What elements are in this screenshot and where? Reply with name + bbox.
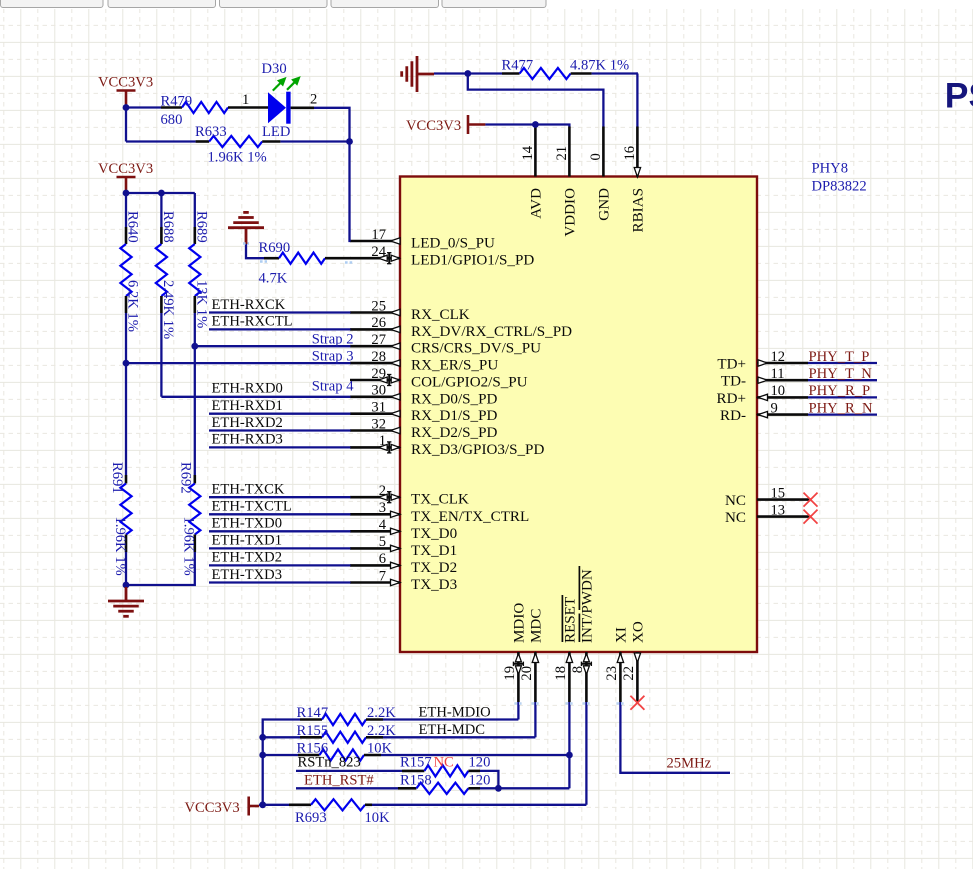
svg-text:15: 15 [771, 485, 786, 501]
wire gnd to junction [434, 72, 468, 74]
wire LED to corner [291, 107, 314, 110]
svg-text:TD+: TD+ [717, 357, 746, 373]
wire net ETH-TXD2 [209, 564, 351, 566]
svg-text:7: 7 [379, 568, 386, 584]
node junction R689 row27 [191, 343, 198, 350]
svg-text:TX_CLK: TX_CLK [411, 492, 469, 508]
pin 14 AVD [520, 127, 545, 219]
wire RESET col [568, 702, 570, 755]
svg-text:AVD: AVD [529, 188, 545, 219]
svg-text:17: 17 [371, 227, 386, 243]
wire row30 strap4 from R688 [161, 396, 350, 398]
pin 7 TX_D3 [350, 568, 457, 593]
svg-text:R158: R158 [400, 773, 432, 789]
svg-text:R157: R157 [400, 755, 432, 771]
svg-text:12: 12 [771, 349, 786, 365]
wire net ETH-RXCK [209, 311, 351, 313]
svg-text:32: 32 [371, 416, 386, 432]
svg-text:22: 22 [621, 666, 637, 681]
svg-text:LED_0/S_PU: LED_0/S_PU [411, 236, 495, 252]
power VCC3V3 (bottom-left) [247, 797, 250, 816]
svg-text:MDIO: MDIO [512, 603, 528, 643]
node junction rail R640 [123, 190, 130, 197]
resistor R692 1.96K 1% [194, 346, 196, 475]
ground power symbol (bottom of R691) [125, 587, 128, 601]
wire R477 to RBIAS pin16 [636, 74, 639, 127]
svg-text:14: 14 [520, 145, 536, 160]
svg-text:PHY_T_P: PHY_T_P [809, 349, 870, 365]
resistor R155 2.2K [263, 736, 300, 738]
wire net ETH-TXCTL [209, 513, 351, 515]
ERC markers (light blue) at bottom pin ends [514, 702, 624, 704]
svg-text:13K 1%: 13K 1% [193, 280, 209, 328]
svg-text:R640: R640 [125, 211, 141, 243]
node junction VCC-R479-R633 [123, 104, 130, 111]
resistor R690 4.7K [264, 257, 279, 260]
svg-text:PS: PS [945, 76, 973, 116]
wire VCC3V3 rail [125, 190, 127, 193]
pin 9 RD- [720, 400, 808, 424]
svg-text:ETH-TXD3: ETH-TXD3 [212, 567, 283, 583]
pin 20 MDC [519, 609, 545, 702]
svg-text:20: 20 [519, 666, 535, 681]
wire XI col to 25MHz [620, 702, 730, 773]
svg-text:VCC3V3: VCC3V3 [406, 118, 461, 134]
resistor R147 2.2K [300, 718, 322, 721]
wire VCC to R479 [126, 106, 161, 108]
svg-text:ETH-TXD1: ETH-TXD1 [212, 533, 283, 549]
svg-text:NC: NC [434, 755, 454, 771]
wire net ETH-TXD0 [209, 530, 351, 532]
node junction RESET-R156 [566, 752, 573, 759]
svg-text:5: 5 [379, 534, 386, 550]
svg-text:21: 21 [554, 146, 570, 161]
svg-text:VDDIO: VDDIO [563, 188, 579, 237]
svg-text:ETH-TXCK: ETH-TXCK [212, 482, 285, 498]
node junction R155 rail [259, 734, 266, 741]
svg-text:25: 25 [371, 298, 386, 314]
wire net ETH-TXCK [209, 496, 351, 498]
svg-text:RBIAS: RBIAS [631, 188, 647, 232]
svg-text:PHY8: PHY8 [812, 161, 849, 177]
svg-text:Strap 4: Strap 4 [312, 379, 354, 395]
svg-text:Strap 3: Strap 3 [312, 348, 354, 364]
pin 32 RX_D2/S_PD [350, 416, 497, 441]
wire net PHY_T_P [808, 362, 877, 364]
resistor R640 6.2K 1% [125, 193, 127, 227]
svg-text:VCC3V3: VCC3V3 [98, 75, 153, 91]
svg-text:TX_D2: TX_D2 [411, 560, 457, 576]
svg-text:NC: NC [725, 510, 746, 526]
pin 26 RX_DV/RX_CTRL/S_PD [350, 315, 572, 340]
svg-text:PHY_R_N: PHY_R_N [809, 400, 874, 416]
pin 10 RD+ [717, 383, 808, 407]
svg-text:XO: XO [631, 621, 647, 643]
svg-text:11: 11 [771, 366, 785, 382]
wire net ETH-RXD2 [209, 429, 351, 431]
pin 2 TX_CLK [350, 483, 469, 508]
window tab bar [1, 0, 104, 8]
svg-text:CRS/CRS_DV/S_PU: CRS/CRS_DV/S_PU [411, 341, 541, 357]
svg-text:TX_D0: TX_D0 [411, 526, 457, 542]
svg-text:RX_ER/S_PU: RX_ER/S_PU [411, 358, 498, 374]
svg-text:13: 13 [771, 502, 786, 518]
svg-text:RX_D3/GPIO3/S_PD: RX_D3/GPIO3/S_PD [411, 442, 544, 458]
pin 12 TD+ [717, 349, 808, 373]
svg-text:XI: XI [614, 627, 630, 643]
svg-text:4: 4 [379, 517, 387, 533]
wire left pullup rail [263, 720, 300, 805]
svg-text:27: 27 [371, 332, 386, 348]
svg-text:ETH-TXD0: ETH-TXD0 [212, 516, 283, 532]
svg-text:R693: R693 [295, 810, 327, 826]
pin 17 LED_0/S_PU [350, 227, 495, 252]
svg-text:ETH-MDC: ETH-MDC [419, 722, 485, 738]
svg-text:2: 2 [310, 92, 317, 108]
pin 6 TX_D2 [350, 551, 457, 576]
svg-text:D30: D30 [262, 61, 287, 77]
wire junction to GND pin0 [468, 74, 604, 127]
svg-text:0: 0 [588, 153, 604, 160]
resistor R693 10K [263, 804, 289, 806]
svg-text:R155: R155 [297, 723, 329, 739]
pin 5 TX_D1 [350, 534, 457, 559]
svg-text:TX_D1: TX_D1 [411, 543, 457, 559]
pin 11 TD- [721, 366, 808, 390]
power VCC3V3 (top middle) [467, 115, 470, 134]
svg-text:R692: R692 [177, 462, 193, 494]
resistor R688 2.49K 1% [160, 193, 162, 227]
svg-text:16: 16 [622, 146, 638, 161]
svg-text:DP83822: DP83822 [812, 179, 867, 195]
svg-text:R479: R479 [161, 94, 193, 110]
svg-text:RD-: RD- [720, 408, 746, 424]
svg-text:ETH-RXCK: ETH-RXCK [212, 297, 286, 313]
svg-text:2.2K: 2.2K [367, 723, 396, 739]
svg-text:ETH-RXD1: ETH-RXD1 [212, 398, 283, 414]
svg-text:3: 3 [379, 500, 386, 516]
svg-text:26: 26 [371, 315, 386, 331]
pin 0 GND [588, 127, 613, 221]
pin 18 RESET [553, 595, 579, 702]
svg-text:TX_D3: TX_D3 [411, 577, 457, 593]
wire net ETH-TXD3 [209, 581, 351, 583]
svg-text:19: 19 [502, 666, 518, 681]
wire VCC to junction [259, 804, 263, 806]
svg-text:Strap 2: Strap 2 [312, 332, 354, 348]
pin 3 TX_EN/TX_CTRL [350, 500, 529, 525]
wire net PHY_R_P [808, 396, 877, 398]
node junction R633-LED column [346, 138, 353, 145]
node junction R157-R158 [495, 785, 502, 792]
node junction AVD [532, 121, 539, 128]
svg-text:RX_D0/S_PD: RX_D0/S_PD [411, 391, 497, 407]
svg-text:18: 18 [553, 666, 569, 681]
no-connect X on XO pin22 [630, 696, 644, 710]
pin 22 XO [621, 621, 647, 702]
svg-text:MDC: MDC [529, 609, 545, 643]
svg-text:PHY_T_N: PHY_T_N [809, 366, 873, 382]
IC U PHY8 DP83822 body [400, 177, 757, 653]
pin 27 CRS/CRS_DV/S_PU [350, 332, 541, 357]
node junction R640 row28 [123, 360, 130, 367]
wire INT/PWDN col [585, 702, 587, 805]
svg-text:9: 9 [771, 400, 778, 416]
wire MDIO col [517, 702, 519, 720]
wire MDC col [534, 702, 536, 737]
svg-text:28: 28 [371, 349, 386, 365]
svg-text:GND: GND [597, 188, 613, 221]
svg-text:RESET: RESET [563, 597, 579, 643]
resistor R633 1.96K 1% [126, 140, 196, 142]
svg-text:4.87K 1%: 4.87K 1% [570, 58, 629, 74]
ground earth (inverted, above R690) [243, 211, 249, 214]
svg-text:6.2K 1%: 6.2K 1% [125, 280, 141, 332]
svg-text:ETH-TXD2: ETH-TXD2 [212, 550, 283, 566]
svg-text:RX_D2/S_PD: RX_D2/S_PD [411, 425, 497, 441]
svg-text:RX_DV/RX_CTRL/S_PD: RX_DV/RX_CTRL/S_PD [411, 324, 572, 340]
wire R158 up to RESET col [568, 755, 570, 788]
svg-text:30: 30 [371, 383, 386, 399]
svg-text:R147: R147 [297, 705, 329, 721]
svg-text:680: 680 [161, 112, 183, 128]
wire net ETH-RXD3 [209, 446, 351, 448]
svg-text:25MHz: 25MHz [667, 756, 712, 772]
svg-text:INT/PWDN: INT/PWDN [580, 569, 596, 643]
ground earth (rotated, top) [416, 56, 419, 92]
svg-text:120: 120 [469, 755, 491, 771]
pin 24 LED1/GPIO1/S_PD [350, 244, 534, 269]
svg-text:R688: R688 [160, 211, 176, 243]
wire VCC down to R633 row [125, 108, 127, 142]
svg-text:LED1/GPIO1/S_PD: LED1/GPIO1/S_PD [411, 253, 534, 269]
power VCC3V3 (mid-left) [117, 176, 136, 179]
pin 21 VDDIO [554, 127, 579, 237]
svg-text:NC: NC [725, 493, 746, 509]
resistor R691 1.96K 1% [125, 363, 127, 475]
pin 8 INT/PWDN [570, 566, 596, 702]
svg-text:10K: 10K [365, 810, 391, 826]
pin 25 RX_CLK [350, 298, 470, 323]
pin 30 RX_D0/S_PD [350, 383, 497, 408]
svg-text:RX_CLK: RX_CLK [411, 307, 470, 323]
node junction R156 rail [259, 752, 266, 759]
node junction ground rail [123, 582, 130, 589]
svg-text:1.96K 1%: 1.96K 1% [112, 517, 128, 576]
wire net ETH-TXD1 [209, 547, 351, 549]
svg-text:1: 1 [242, 92, 249, 108]
wire net ETH-RXCTL [209, 328, 351, 330]
svg-text:RSTn_823: RSTn_823 [298, 755, 361, 771]
svg-text:PHY_R_P: PHY_R_P [809, 383, 871, 399]
svg-text:R690: R690 [259, 240, 291, 256]
wire row27 strap2 [195, 345, 351, 347]
svg-text:4.7K: 4.7K [259, 271, 288, 287]
svg-text:RX_D1/S_PD: RX_D1/S_PD [411, 408, 497, 424]
pin 13 NC [725, 502, 817, 526]
svg-text:R689: R689 [193, 211, 209, 243]
wire net PHY_T_N [808, 379, 877, 381]
svg-text:23: 23 [604, 666, 620, 681]
svg-text:31: 31 [371, 400, 386, 416]
svg-text:RD+: RD+ [717, 391, 746, 407]
pin 23 XI [604, 627, 630, 702]
node junction rail R688 [158, 190, 165, 197]
svg-text:ETH-TXCTL: ETH-TXCTL [212, 499, 292, 515]
svg-text:ETH-RXD2: ETH-RXD2 [212, 415, 283, 431]
svg-text:VCC3V3: VCC3V3 [98, 161, 153, 177]
wire net PHY_R_N [808, 413, 877, 415]
wire net ETH-RXD1 [209, 413, 351, 415]
pin 28 RX_ER/S_PU [350, 349, 498, 374]
svg-text:ETH-RXD3: ETH-RXD3 [212, 432, 283, 448]
svg-text:TX_EN/TX_CTRL: TX_EN/TX_CTRL [411, 509, 529, 525]
svg-text:R691: R691 [109, 462, 125, 494]
svg-text:ETH-RXD0: ETH-RXD0 [212, 381, 283, 397]
svg-text:LED: LED [262, 124, 290, 140]
svg-text:1.96K 1%: 1.96K 1% [208, 149, 267, 165]
wire row28 strap3 [126, 362, 351, 364]
svg-text:ETH_RST#: ETH_RST# [304, 773, 374, 789]
svg-text:2.2K: 2.2K [367, 705, 396, 721]
resistor R479 680 [161, 106, 182, 109]
resistor R158 120 [296, 787, 398, 789]
svg-text:TD-: TD- [721, 374, 746, 390]
resistor R157 120 (NC) [296, 770, 402, 772]
svg-text:R633: R633 [195, 124, 227, 140]
wire LED column down to pin 17 [350, 142, 351, 242]
pin 31 RX_D1/S_PD [350, 400, 497, 425]
svg-text:R477: R477 [502, 58, 534, 74]
pin 1 RX_D3/GPIO3/S_PD [350, 433, 544, 458]
svg-text:VCC3V3: VCC3V3 [185, 800, 240, 816]
node junction VCC bottom [259, 801, 266, 808]
resistor R689 13K 1% [194, 193, 196, 227]
pin 19 MDIO [502, 603, 528, 702]
svg-text:10K: 10K [367, 741, 393, 757]
pin 29 COL/GPIO2/S_PU [350, 366, 528, 391]
svg-text:120: 120 [469, 773, 491, 789]
ERC marker (light blue) near ground stem [243, 244, 353, 263]
svg-text:2.49K 1%: 2.49K 1% [160, 280, 176, 339]
power VCC3V3 (top-left) [117, 89, 136, 92]
svg-text:ETH-RXCTL: ETH-RXCTL [212, 314, 293, 330]
wire gnd to R690 [246, 244, 264, 258]
svg-text:6: 6 [379, 551, 386, 567]
svg-text:ETH-MDIO: ETH-MDIO [419, 705, 491, 721]
wire VCC to AVD/VDDIO [485, 125, 569, 127]
svg-text:COL/GPIO2/S_PU: COL/GPIO2/S_PU [411, 375, 528, 391]
resistor R477 4.87K 1% [468, 72, 502, 74]
resistor R156 10K [263, 754, 298, 756]
svg-text:10: 10 [771, 383, 786, 399]
node junction R477 input [464, 70, 471, 77]
svg-text:1.96K 1%: 1.96K 1% [180, 517, 196, 576]
pin 15 NC [725, 485, 817, 509]
pin 4 TX_D0 [350, 517, 457, 542]
pin 16 RBIAS [622, 127, 647, 233]
